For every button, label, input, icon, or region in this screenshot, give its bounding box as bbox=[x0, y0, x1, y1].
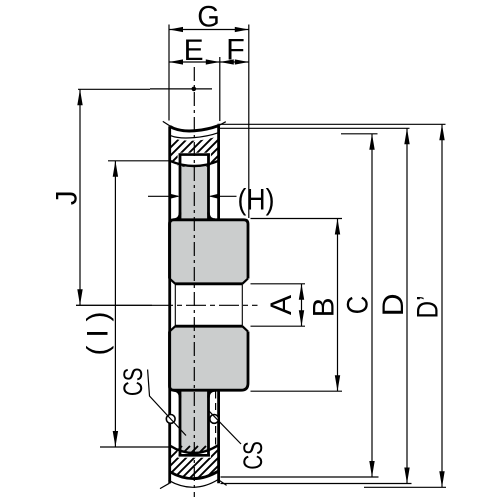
dimension J arrows bbox=[77, 89, 82, 305]
CS circle left bbox=[166, 415, 175, 424]
dimension B line bbox=[337, 219, 339, 392]
web-hub fillet top right bbox=[209, 213, 216, 220]
hatch bottom band bbox=[146, 446, 246, 482]
bore chamfer bottom right bbox=[242, 326, 248, 331]
CS leader left bbox=[148, 370, 186, 436]
dimension A line bbox=[301, 284, 303, 326]
dimension I top extension bbox=[108, 160, 169, 162]
svg-text:B: B bbox=[308, 297, 341, 317]
svg-text:G: G bbox=[197, 1, 220, 34]
vertical centerline bbox=[193, 67, 195, 497]
dimension G extension right bbox=[248, 25, 250, 219]
horizontal centerline solid part bbox=[76, 304, 153, 306]
bottom root arc bbox=[170, 445, 219, 453]
bore chamfer bottom left bbox=[170, 326, 176, 331]
web right edge lower bbox=[207, 390, 210, 456]
roller center mark bbox=[150, 88, 212, 90]
dimension EF mid extension bbox=[219, 57, 221, 121]
dimension Dp bottom extension bbox=[364, 486, 446, 488]
hatch top band bbox=[146, 136, 246, 172]
tooth top right tick bbox=[218, 122, 226, 126]
hub lower gray fill bbox=[170, 326, 249, 390]
roller center dot bbox=[192, 87, 197, 92]
dimension A bottom extension bbox=[251, 325, 306, 327]
bore chamfer edge right bbox=[241, 284, 243, 326]
web-hub fillet top left bbox=[174, 213, 181, 220]
svg-text:CS: CS bbox=[118, 368, 148, 397]
dimension A arrows bbox=[299, 284, 304, 326]
web top edge bbox=[179, 153, 210, 156]
web left edge lower bbox=[179, 390, 182, 456]
svg-text:A: A bbox=[265, 295, 298, 315]
web left edge upper bbox=[179, 153, 182, 219]
dimension E arrows bbox=[169, 59, 220, 64]
svg-text:J: J bbox=[50, 190, 83, 205]
svg-text:D: D bbox=[377, 293, 410, 316]
dimension B arrows bbox=[335, 219, 340, 392]
rim right edge upper bbox=[217, 126, 220, 220]
svg-text:CS: CS bbox=[238, 441, 268, 470]
dimension J bottom extension bbox=[76, 304, 152, 306]
dimension H arrow right bbox=[209, 194, 219, 199]
hub lower outline bbox=[170, 332, 249, 391]
bottom right tick bbox=[218, 480, 226, 486]
dimension G extension left bbox=[168, 25, 170, 121]
tooth top root arc bbox=[170, 161, 219, 166]
dimension I bottom extension bbox=[100, 446, 170, 448]
tooth top left tick bbox=[163, 121, 171, 126]
bore bottom line bbox=[175, 325, 242, 328]
rim left edge line bbox=[168, 126, 171, 483]
rim right edge lower bbox=[217, 390, 220, 483]
svg-text:F: F bbox=[226, 34, 245, 67]
dimension D line bbox=[406, 128, 408, 483]
bore chamfer edge left bbox=[174, 284, 176, 326]
dimension C top extension bbox=[341, 133, 378, 135]
dimension G arrows bbox=[169, 27, 249, 32]
bottom thin arc bbox=[169, 479, 219, 487]
dimension J top extension bbox=[78, 88, 150, 90]
dimension EF line bbox=[169, 61, 249, 63]
bottom left tick bbox=[160, 483, 170, 488]
dimension H line right bbox=[211, 195, 237, 197]
svg-text:(I): (I) bbox=[82, 312, 115, 356]
dimension H arrow left bbox=[170, 194, 180, 199]
dimension B top extension bbox=[251, 218, 343, 220]
dimension J line bbox=[79, 89, 81, 305]
bore top line bbox=[175, 282, 242, 285]
dimension F arrows bbox=[220, 59, 249, 64]
web bottom edge bbox=[179, 454, 210, 457]
web right edge upper bbox=[207, 153, 210, 219]
dimension C bottom extension bbox=[221, 476, 379, 478]
dimension I line bbox=[114, 161, 116, 447]
dimension Dp top extension bbox=[218, 123, 446, 125]
horizontal centerline dash part bbox=[153, 304, 258, 306]
dimension B bottom extension bbox=[251, 390, 343, 392]
hub upper gray fill bbox=[170, 220, 249, 284]
hidden groove dashed line bbox=[215, 392, 217, 445]
web-hub fillet bottom left bbox=[174, 390, 181, 397]
CS circle right bbox=[210, 415, 219, 424]
dimension Dp arrows bbox=[439, 124, 444, 487]
dimension C line bbox=[371, 134, 373, 477]
web-hub fillet bottom right bbox=[209, 390, 216, 397]
svg-text:E: E bbox=[184, 34, 204, 67]
tooth top tip arc bbox=[170, 126, 219, 131]
bore chamfer top right bbox=[242, 279, 248, 284]
dimension G line bbox=[169, 29, 249, 31]
bore chamfer top left bbox=[170, 279, 176, 284]
CS leader right bbox=[209, 411, 241, 444]
dimension H line left bbox=[148, 195, 178, 197]
svg-text:(H): (H) bbox=[238, 183, 275, 216]
svg-text:C: C bbox=[342, 296, 375, 315]
dimension D bottom extension bbox=[221, 483, 412, 485]
web gray fill lower bbox=[180, 390, 209, 452]
hub upper outline bbox=[170, 220, 249, 279]
dimension D top extension bbox=[219, 127, 410, 129]
dimension Dp line bbox=[441, 124, 443, 487]
dimension I arrows bbox=[113, 161, 118, 447]
dimension A top extension bbox=[251, 283, 306, 285]
bottom tooth tip arc bbox=[170, 471, 219, 479]
svg-text:D’: D’ bbox=[411, 296, 444, 319]
dimension D arrows bbox=[404, 128, 409, 483]
dimension C arrows bbox=[369, 134, 374, 477]
web gray fill upper bbox=[180, 166, 209, 221]
tooth top inner thin arc bbox=[171, 133, 219, 138]
